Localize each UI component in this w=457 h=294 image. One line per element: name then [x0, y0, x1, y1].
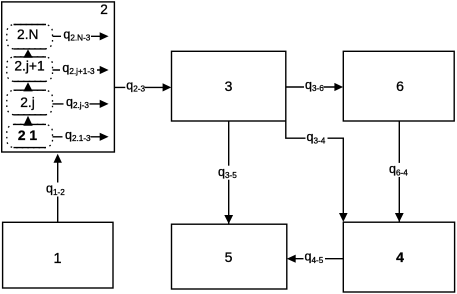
- wire 2.j+1 output: [53, 69, 102, 71]
- wire q3-4 (3 right-bottom, over and down to 4): [286, 121, 344, 214]
- state box 2.j (dashed): [7, 90, 53, 115]
- svg-text:1: 1: [53, 251, 61, 267]
- wire 2.1 output: [53, 136, 102, 138]
- svg-text:5: 5: [225, 249, 233, 265]
- wire q2-3 (2 to 3): [114, 86, 164, 88]
- state box 2.N (dashed): [7, 25, 53, 49]
- block 5: [172, 224, 287, 289]
- svg-text:2.j+1: 2.j+1: [14, 58, 44, 73]
- up arrow 2.j+1 to 2.N: [23, 49, 32, 57]
- state box 2.1 (dashed): [7, 124, 53, 147]
- wire 2.N output: [53, 35, 102, 37]
- svg-text:4: 4: [396, 249, 404, 265]
- up arrow 2.1 to 2.j: [23, 116, 32, 126]
- wire q3-6 (3 to 6): [286, 86, 336, 88]
- svg-text:3: 3: [225, 78, 233, 94]
- svg-text:2.N: 2.N: [17, 27, 38, 42]
- svg-text:2.j: 2.j: [20, 95, 35, 110]
- state box 2.j+1 (dashed): [7, 57, 53, 82]
- block 2 container: [2, 2, 115, 152]
- svg-text:2: 2: [100, 2, 108, 17]
- wire q1-2 (1 to 2): [57, 162, 59, 222]
- wire q6-4 (6 down to 4): [398, 121, 400, 222]
- svg-text:2 1: 2 1: [18, 128, 38, 143]
- block 1: [3, 222, 113, 288]
- up arrow 2.j to 2.j+1: [23, 82, 32, 91]
- wire q3-5 (3 down to 5): [228, 121, 230, 224]
- block 3: [172, 51, 286, 121]
- wire 2.j output: [53, 103, 102, 105]
- svg-text:6: 6: [396, 78, 404, 94]
- block 6: [343, 51, 454, 121]
- wire q4-5 (4 to 5): [295, 258, 343, 260]
- block 4: [343, 222, 454, 292]
